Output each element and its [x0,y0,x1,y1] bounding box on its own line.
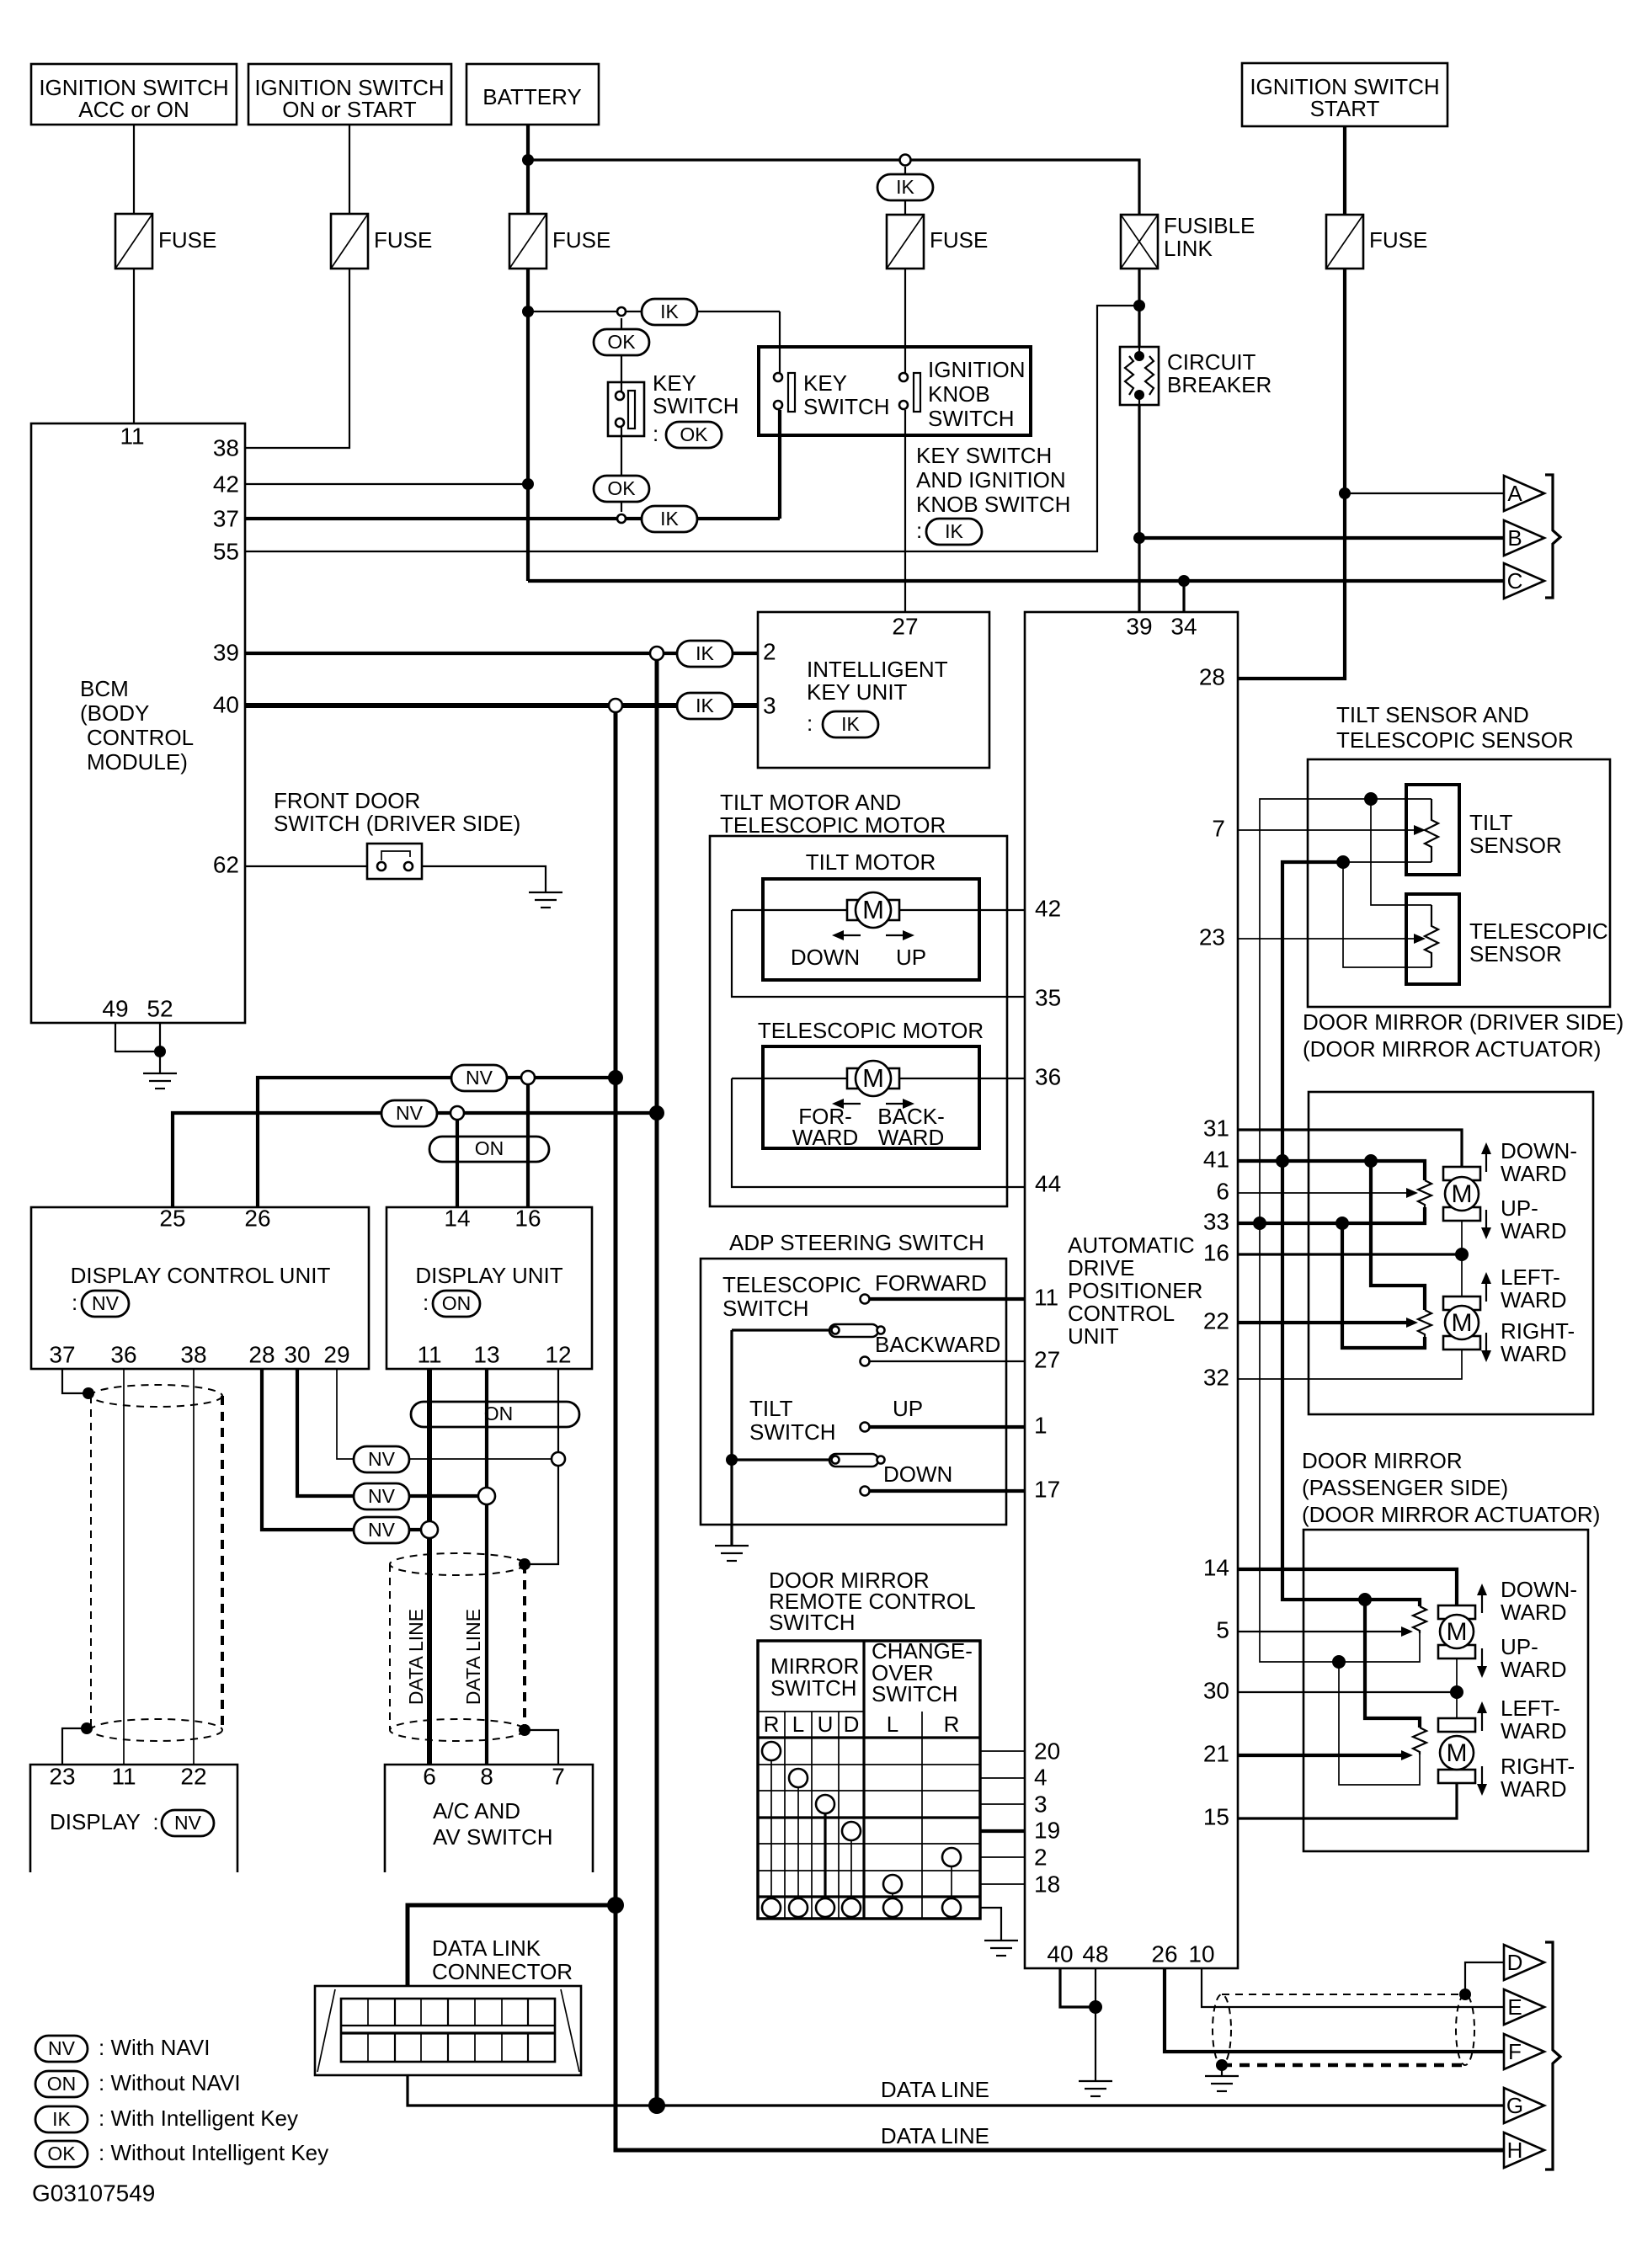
svg-text:DISPLAY :: DISPLAY : [50,1809,159,1834]
fuse F1 [115,214,216,269]
svg-text:28: 28 [1199,663,1225,689]
arrow G [1504,2088,1544,2123]
wire contact D column [850,1840,852,1898]
wire to ADP pin 34 [1182,581,1185,612]
driver lr resistor [1418,1310,1431,1337]
svg-text::: : [653,421,658,446]
svg-text:H: H [1507,2138,1523,2163]
wire ignition start to fuse F5 [1343,126,1346,215]
arrow up leftward passenger [1477,1701,1487,1731]
svg-text:DRIVE: DRIVE [1068,1255,1134,1280]
svg-text:KEY: KEY [803,370,847,396]
svg-text:WARD: WARD [1501,1161,1566,1186]
wire BCM pin 39 to intelligent key unit pin 2 [245,652,758,655]
wire contact L column [797,1787,799,1898]
junction battery key branch [522,306,534,317]
wire ADP pin 16 to motors common [1238,1253,1462,1255]
ground BCM [143,1073,177,1089]
svg-text:62: 62 [213,851,239,877]
shield DU pins 11-13 [390,1553,525,1741]
fusible link FL [1121,213,1255,269]
svg-text::: : [72,1290,77,1315]
svg-text:ON: ON [47,2073,77,2095]
wire up to ADP pin 1 [870,1425,1025,1429]
svg-text:ADP STEERING SWITCH: ADP STEERING SWITCH [729,1230,984,1255]
arrow up downward [1481,1142,1491,1172]
wire 41 branch to lr resistor [1371,1161,1425,1310]
svg-text:D: D [1507,1950,1523,1975]
svg-text:(PASSENGER SIDE): (PASSENGER SIDE) [1302,1475,1508,1500]
svg-text:4: 4 [1034,1764,1048,1790]
wire ignition ON/START to fuse F2 [349,125,350,214]
telescopic sensor inner box [1406,894,1459,984]
arrow up leftward [1481,1272,1491,1302]
tag NV row B [354,1483,409,1509]
tilt and telescopic sensor box [1308,759,1610,1007]
tag OK key switch label [666,422,722,448]
svg-text:UP: UP [896,945,926,970]
junction passenger supply split [1358,1593,1372,1606]
wire ignition knob switch to IKU pin 27 [904,269,906,373]
telescopic switch lever [732,1324,885,1337]
svg-text:UP-: UP- [1501,1195,1538,1221]
wire circuit breaker to ADP pin 39 [1138,405,1140,612]
junction vertical1 line1 [608,1070,623,1085]
tag IK pin2 [677,641,733,667]
svg-text:: Without NAVI: : Without NAVI [99,2070,241,2095]
svg-text:FUSE: FUSE [930,227,988,253]
node line2 branch to DU pin14 [450,1106,464,1120]
ADP steering switch box [701,1259,1006,1525]
fuse F4 [887,215,988,269]
bracket DEFGH [1545,1942,1560,2170]
svg-text:DATA LINE: DATA LINE [881,2077,989,2102]
svg-text:CIRCUIT: CIRCUIT [1167,349,1256,375]
wire mirror switch pin 20 [980,1750,1025,1752]
svg-text:55: 55 [213,538,239,564]
svg-text:SWITCH: SWITCH [749,1419,836,1445]
junction DU shield bottom [519,1724,530,1736]
svg-text:33: 33 [1203,1208,1229,1234]
arrow driver lr wiper [1406,1318,1418,1328]
node row B junction [478,1488,495,1504]
svg-text:IGNITION: IGNITION [928,357,1026,382]
svg-text:(DOOR MIRROR ACTUATOR): (DOOR MIRROR ACTUATOR) [1303,1036,1601,1062]
svg-text:NV: NV [368,1485,396,1507]
svg-text:DOWN: DOWN [791,945,860,970]
wire ADP pin 31 to driver mirror motor [1238,1130,1462,1167]
svg-text:42: 42 [213,471,239,497]
wire contact R column [770,1760,772,1898]
wire row B DCU pin30 to DU pin13 [297,1369,478,1496]
svg-text:FUSIBLE: FUSIBLE [1164,213,1255,238]
svg-text:BREAKER: BREAKER [1167,372,1271,397]
wire mirror switch pin 19 [980,1829,1025,1833]
junction battery top [522,154,534,166]
wire DU pin11 to AC pin6 [427,1369,432,1765]
svg-text:26: 26 [1151,1941,1177,1967]
svg-text:3: 3 [1034,1791,1048,1817]
svg-text:RIGHT-: RIGHT- [1501,1754,1575,1779]
svg-text:11: 11 [1034,1284,1058,1310]
wire DU shield to AC pin7 [525,1730,558,1765]
junction motors common [1455,1248,1469,1261]
wire ADP pin 5 to passenger ud wiper [1238,1631,1401,1632]
tag OK lower [594,476,649,502]
tag IK intelligent key unit [823,711,878,737]
svg-text:CONTROL: CONTROL [1068,1301,1175,1326]
wire fusible link to circuit breaker [1138,269,1140,347]
svg-text:INTELLIGENT: INTELLIGENT [807,657,948,682]
telescopic motor inner box [763,1046,979,1148]
tilt switch lever [732,1454,885,1467]
wire fuse F1 to BCM pin 11 [133,269,135,423]
svg-text:36: 36 [1035,1063,1061,1089]
svg-text:M: M [1447,1618,1468,1646]
svg-text:FUSE: FUSE [552,227,610,253]
svg-text:KNOB: KNOB [928,381,990,407]
junction A-line node [1339,487,1351,499]
arrow B [1504,520,1544,556]
passenger motor M left-right [1438,1718,1475,1783]
svg-text:30: 30 [284,1341,310,1367]
junction passenger return split [1332,1655,1346,1669]
svg-text:22: 22 [180,1763,206,1789]
tag NV line1 [451,1065,507,1091]
intelligent key unit box [758,612,989,768]
wire ADP pin 10 to arrow E [1202,1968,1504,2007]
passenger motor M up-down [1438,1605,1475,1718]
tag IK fuse branch [877,174,933,200]
arrow tilt motor right [886,930,914,940]
wire mirror switch pin 3 [980,1803,1025,1805]
svg-text:E: E [1507,1994,1522,2020]
tag IK key switch top [642,299,697,325]
box IGNITION SWITCH ACC or ON [31,64,237,125]
driver motor M up-down [1443,1167,1480,1296]
tilt and telescopic motor assembly box [710,836,1007,1206]
wire ADP pin 22 to driver lr wiper [1238,1321,1406,1324]
node data line branch on pin39 [650,647,664,660]
svg-text:SWITCH: SWITCH [653,393,739,418]
svg-text:WARD: WARD [1501,1600,1566,1625]
svg-text:ACC or ON: ACC or ON [78,97,189,122]
wire BCM pin 49 to ground [115,1023,160,1051]
svg-text:WARD: WARD [792,1125,858,1150]
svg-text:LEFT-: LEFT- [1501,1696,1560,1721]
node data line branch on pin40 [609,699,622,712]
wire branch to fuse F4 [904,167,906,215]
svg-text:TELESCOPIC MOTOR: TELESCOPIC MOTOR [720,812,946,838]
node row C junction [421,1521,438,1538]
svg-text:TILT MOTOR: TILT MOTOR [806,849,936,875]
wire ADP pin 48 to ground [1095,1968,1096,2081]
tag OK upper [594,329,649,355]
svg-text:WARD: WARD [1501,1287,1566,1312]
svg-text:11: 11 [120,423,144,449]
svg-text:WARD: WARD [878,1125,944,1150]
junction passenger motors common [1450,1685,1463,1699]
wire telescopic motor to ADP pin 36 [732,1078,1025,1079]
tag IK key switch bottom [642,506,697,532]
wire ADP pin 6 to driver ud wiper [1238,1192,1406,1194]
svg-text:22: 22 [1203,1307,1229,1334]
wire sensor supply 33 branch [1260,799,1431,1223]
mirror switch contact D [842,1822,861,1840]
svg-text:5: 5 [1216,1616,1229,1642]
telescopic motor M2 [847,1061,899,1096]
legend tag IK [35,2106,298,2132]
svg-text:: Without Intelligent Key: : Without Intelligent Key [99,2140,328,2165]
wire BCM pin 42 to battery node [245,483,528,485]
wire data line vertical 2 (to G) [655,660,659,2106]
svg-text:(DOOR MIRROR ACTUATOR): (DOOR MIRROR ACTUATOR) [1302,1502,1600,1527]
svg-text:DOWN-: DOWN- [1501,1577,1577,1602]
contact down [861,1487,870,1496]
node OK branch bottom [617,514,626,523]
svg-text:27: 27 [1034,1346,1060,1372]
junction shield ground [1216,2059,1228,2071]
svg-text:TILT MOTOR AND: TILT MOTOR AND [720,790,901,815]
svg-text:34: 34 [1170,613,1197,639]
svg-text:15: 15 [1203,1803,1229,1829]
arrow passenger ud wiper [1401,1626,1413,1637]
svg-text:FORWARD: FORWARD [875,1270,987,1296]
key switch KS1 (without intelligent key) [608,370,739,446]
svg-text:25: 25 [159,1205,185,1231]
svg-text:TILT: TILT [1469,810,1513,835]
svg-text:G: G [1506,2093,1523,2118]
svg-text:21: 21 [1203,1740,1229,1766]
wire ignition ACC to fuse F1 [133,125,135,214]
svg-text:10: 10 [1188,1941,1214,1967]
wire ADP pin 26 to arrow F [1165,1968,1504,2052]
wire arrow D to shield [1465,1962,1504,1994]
display unit box [387,1205,592,1369]
wire shield to display pin23 [62,1728,87,1765]
junction 41 lr branch [1364,1154,1378,1168]
svg-text:C: C [1507,568,1523,594]
svg-text:R: R [944,1712,960,1737]
svg-text:TILT SENSOR AND: TILT SENSOR AND [1336,702,1529,727]
arrow F [1504,2034,1544,2069]
svg-text:BATTERY: BATTERY [482,84,582,109]
label KEY SWITCH AND IGNITION KNOB SWITCH [916,443,1070,543]
shield DCU pins 36-38 [91,1385,222,1741]
wire battery feed to arrow C [528,579,1504,583]
svg-text:KEY SWITCH: KEY SWITCH [916,443,1052,468]
circuit breaker CB [1120,347,1271,405]
wire A-line [1345,492,1504,494]
svg-text:IK: IK [660,508,679,530]
ground front door switch [529,892,562,908]
svg-text:M: M [862,1063,884,1093]
wire mirror switch common to ground [980,1908,1001,1941]
svg-text::: : [807,711,813,736]
contact backward [861,1357,870,1366]
arrow C [1504,563,1544,599]
bracket ABC [1545,475,1560,598]
box IGNITION SWITCH ON or START [248,64,451,125]
passenger lr resistor [1413,1728,1426,1754]
wire down to ADP pin 17 [870,1489,1025,1493]
ground ADP 48 [1079,2081,1112,2096]
junction B-line node [1133,532,1145,544]
svg-text:20: 20 [1034,1738,1060,1764]
wire ADP pin 40 to ground node [1060,1968,1096,2007]
svg-text:TILT: TILT [749,1396,793,1421]
mirror switch contact L [789,1769,808,1787]
wire mirror switch pin 18 [980,1883,1025,1885]
wire ADP pin 41 driver mirror [1238,1161,1425,1180]
svg-text:FUSE: FUSE [158,227,216,253]
junction vertical1 DLC loop [607,1897,624,1914]
svg-text:M: M [1452,1309,1473,1337]
svg-text:6: 6 [1216,1178,1229,1204]
wire return to passenger lr resistor bottom [1339,1662,1420,1785]
mirror switch contact U [816,1795,834,1813]
arrow passenger lr wiper [1401,1750,1413,1760]
contact up [861,1423,870,1432]
wire DCU pin37 to shield [62,1369,88,1393]
wire ADP pin 21 to passenger lr wiper [1238,1754,1401,1757]
svg-text:IK: IK [841,713,860,735]
tag ON display unit supply [429,1137,549,1162]
svg-text:49: 49 [102,995,128,1021]
wire fuse F5 to ADP pin 28 [1238,269,1345,679]
svg-text:: With NAVI: : With NAVI [99,2035,210,2060]
legend tag NV [35,2035,210,2062]
svg-text:AUTOMATIC: AUTOMATIC [1068,1232,1195,1258]
svg-text:IK: IK [696,642,714,664]
svg-text:NV: NV [368,1448,396,1470]
wire return to passenger ud resistor bottom [1339,1633,1420,1662]
box BATTERY [466,64,599,125]
svg-text:ON: ON [484,1403,514,1424]
svg-text:DATA LINE: DATA LINE [462,1609,484,1705]
svg-text:SENSOR: SENSOR [1469,833,1562,858]
arrow tilt sensor wiper [1414,825,1426,835]
legend tag ON [35,2070,241,2097]
junction sensor supply split [1364,792,1378,806]
door mirror passenger side box [1303,1530,1588,1851]
wire DCU pin38 to display pin22 [193,1369,195,1765]
wire BCM55 branch L [245,306,1139,551]
front door switch (driver side) [367,844,422,879]
wire data line vertical 1 (to H) [616,712,1504,2150]
wire battery vertical [526,125,530,214]
wire BCM pin 52 to ground [159,1023,161,1073]
svg-text:38: 38 [213,434,239,461]
tag ON over DU wires [411,1402,579,1427]
svg-text:23: 23 [49,1763,75,1789]
svg-text:TELESCOPIC SENSOR: TELESCOPIC SENSOR [1336,727,1574,753]
arrow driver ud wiper [1406,1188,1418,1198]
arrow A [1504,476,1544,511]
junction vertical2 G line [648,2097,665,2114]
wire passenger supply V2 [1282,1161,1420,1606]
svg-text:WARD: WARD [1501,1776,1566,1802]
svg-text:M: M [1452,1180,1473,1208]
svg-text:SENSOR: SENSOR [1469,941,1562,966]
svg-text:NV: NV [92,1292,120,1314]
junction 33 sensor branch [1253,1217,1266,1230]
svg-text::: : [916,518,922,543]
wire ADP pin 33 driver mirror [1238,1207,1425,1223]
svg-text:DISPLAY CONTROL UNIT: DISPLAY CONTROL UNIT [71,1263,331,1288]
svg-text:35: 35 [1035,984,1061,1010]
junction sensor return split [1336,855,1350,869]
wire tilt motor to ADP pin 42 [732,909,1025,911]
svg-text:KEY UNIT: KEY UNIT [807,679,908,705]
svg-text:MODULE): MODULE) [87,749,188,775]
wire supply to passenger lr resistor [1365,1600,1420,1728]
arrow H [1504,2132,1544,2168]
junction 41 sensor branch [1276,1154,1289,1168]
svg-text:11: 11 [417,1341,441,1367]
junction battery pin42 [522,478,534,490]
wire passenger return V1 [1260,1223,1339,1662]
svg-text:40: 40 [1047,1941,1073,1967]
svg-text:SWITCH (DRIVER SIDE): SWITCH (DRIVER SIDE) [274,811,520,836]
svg-text:OK: OK [680,423,708,445]
wire B-line [1139,536,1504,540]
wire return to tilt sensor bottom [1343,861,1431,863]
ground shield [1205,2065,1239,2091]
wire sensor return 41 branch [1282,862,1343,1161]
svg-text:IK: IK [896,176,914,198]
svg-text:OK: OK [607,477,636,499]
svg-text:POSITIONER: POSITIONER [1068,1278,1202,1303]
telescopic sensor potentiometer [1425,905,1438,967]
wire fuse F2 to BCM pin 38 [245,269,349,448]
wire battery branch to key switches [528,311,780,312]
node row A junction [552,1452,565,1466]
junction FL-CB node [1133,300,1145,311]
junction tilt switch common [726,1454,738,1466]
wire ADP pin 32 to driver motor2 bottom [1238,1350,1462,1379]
arrow tilt motor left [832,930,861,940]
svg-text:NV: NV [174,1812,202,1834]
wire row C DCU pin28 to DU pin11 [262,1369,421,1530]
svg-text:26: 26 [244,1205,270,1231]
svg-text:14: 14 [1203,1554,1229,1580]
contact forward [861,1295,870,1304]
wire DU pin13 to AC pin8 [485,1369,488,1765]
svg-text:16: 16 [514,1205,541,1231]
tag ON display unit [433,1291,480,1317]
svg-text:DOWN: DOWN [883,1461,952,1487]
svg-text:ON: ON [475,1137,504,1159]
tag NV display control unit [82,1291,129,1317]
junction D shield [1459,1988,1471,2000]
wire DU pin12 down [525,1369,558,1564]
data link connector [315,1986,581,2075]
fuse F3 battery [509,214,610,269]
wire branch to DU pin 16 [526,1084,530,1207]
svg-text:KNOB SWITCH: KNOB SWITCH [916,492,1070,517]
svg-text:16: 16 [1203,1239,1229,1265]
svg-text:DISPLAY UNIT: DISPLAY UNIT [415,1263,562,1288]
svg-text:7: 7 [1212,815,1225,841]
svg-text:SWITCH: SWITCH [928,406,1015,431]
svg-text:WARD: WARD [1501,1218,1566,1243]
svg-text:NV: NV [466,1067,493,1089]
mirror switch contact R [762,1742,781,1760]
svg-text:AV SWITCH: AV SWITCH [433,1824,553,1850]
svg-text:39: 39 [1126,613,1152,639]
wire contact U column [824,1813,826,1898]
